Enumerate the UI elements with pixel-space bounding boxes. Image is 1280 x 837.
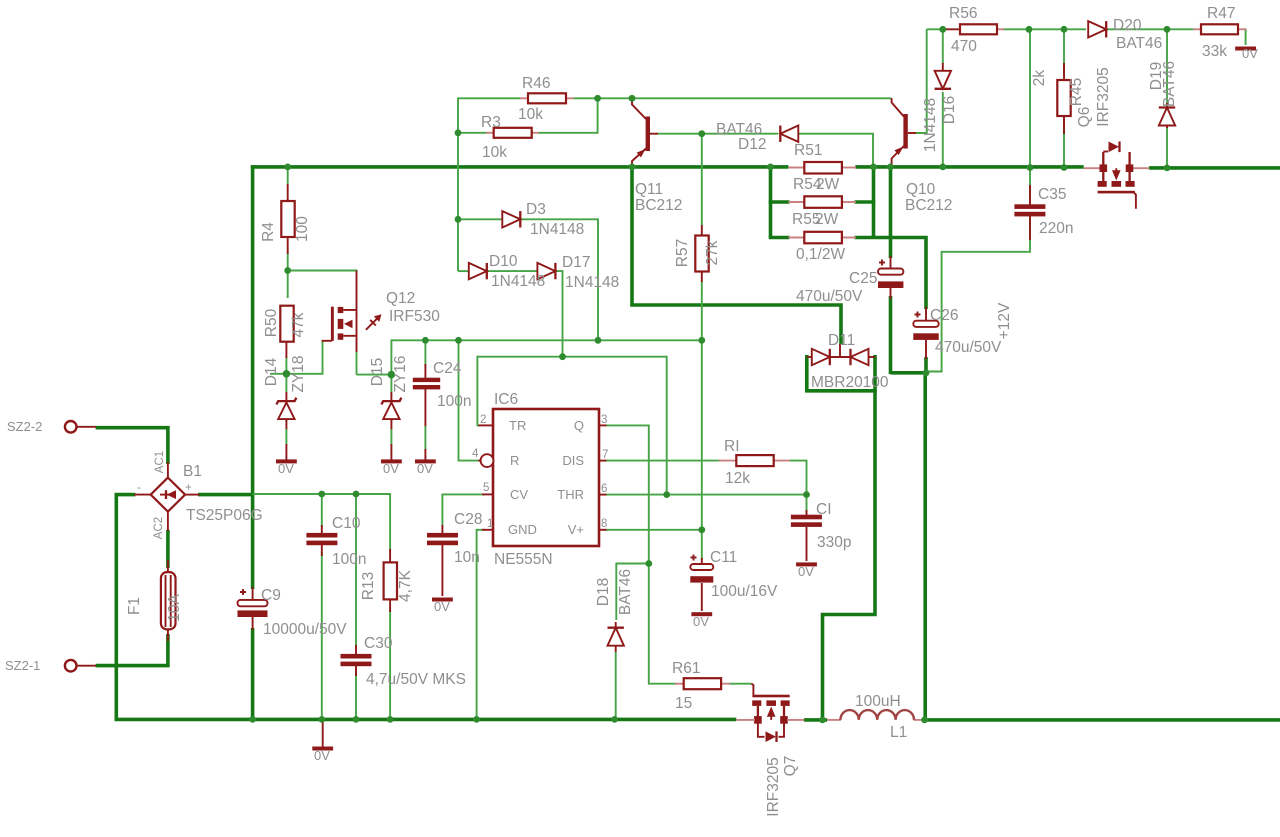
svg-text:ZY18: ZY18 (290, 355, 307, 392)
svg-text:0V: 0V (417, 461, 433, 476)
svg-text:Q6: Q6 (1076, 107, 1093, 128)
node D17 TR (559, 353, 566, 360)
wire C30 bottom (355, 672, 357, 719)
bridge rectifier B1 (134, 462, 200, 531)
node R1 C1 THR (803, 491, 810, 498)
wire D10 D17 link (487, 270, 538, 272)
wire B1 plus rail thin (253, 493, 391, 495)
label 0V C24 (417, 461, 433, 476)
label D20 (1113, 17, 1162, 52)
svg-text:10000u/50V: 10000u/50V (263, 621, 347, 638)
resistor R46 (520, 93, 574, 103)
label C28 (454, 511, 482, 566)
svg-text:R3: R3 (481, 114, 501, 131)
label D18 (595, 569, 634, 615)
wire THR line (605, 494, 806, 496)
svg-text:D20: D20 (1113, 17, 1142, 34)
wire output riser to L1 (923, 373, 927, 720)
node R3 left (455, 129, 462, 136)
svg-text:27k: 27k (704, 240, 721, 265)
wire bottom bus far right (923, 718, 1280, 722)
svg-text:V+: V+ (568, 522, 584, 537)
svg-text:2W: 2W (815, 211, 839, 228)
wire TR down to THR (666, 356, 668, 495)
electrolytic C11 (690, 555, 713, 612)
label R1 (724, 438, 750, 487)
node rail Q11 collector (629, 95, 636, 102)
wire R45 top (1063, 29, 1065, 76)
svg-text:F1: F1 (126, 597, 143, 615)
wire R13 bottom (389, 610, 391, 719)
wire shunt stack left stub row2 (769, 200, 790, 204)
wire R46 R3 left vertical (457, 97, 459, 271)
svg-text:BAT46: BAT46 (1116, 35, 1162, 52)
svg-text:R51: R51 (794, 142, 822, 159)
wire Q11 base (657, 133, 703, 135)
node C9 bus (249, 716, 256, 723)
node C35 bus (1027, 164, 1034, 171)
terminal SZ2-2 (65, 421, 96, 433)
label Q12 (386, 290, 440, 325)
wire pin4 riser (459, 340, 481, 460)
wire Q10 base to corner (915, 29, 927, 133)
svg-text:D18: D18 (595, 578, 612, 606)
svg-text:0V: 0V (434, 599, 450, 614)
node Q11 emitter bus (629, 164, 636, 171)
svg-text:D11: D11 (828, 332, 855, 349)
wire B junction up to y340 (390, 339, 392, 374)
svg-text:CI: CI (816, 501, 832, 518)
label Q10 (905, 181, 952, 214)
label R57 (674, 239, 721, 267)
wire C25 bottom corner to C26 junction (891, 371, 927, 375)
label D16 (922, 96, 958, 152)
label SZ2-1 (5, 658, 40, 673)
svg-text:Q7: Q7 (782, 756, 799, 777)
wire bottom bus right of switch node (804, 718, 827, 722)
label D15 (369, 355, 409, 392)
resistor R51 (788, 162, 856, 174)
label 0V C28 (434, 599, 450, 614)
wire B junction down to D15 (390, 375, 392, 392)
svg-text:+: + (185, 482, 192, 494)
svg-text:B1: B1 (183, 463, 202, 480)
wire D10 row left (458, 270, 469, 272)
svg-text:D17: D17 (562, 254, 590, 271)
svg-text:0,1/2W: 0,1/2W (796, 246, 845, 263)
wire D18 top hanger (615, 563, 617, 620)
resistor R56 (943, 24, 1004, 34)
label C1 (816, 501, 851, 551)
diode D12 (780, 126, 798, 142)
wire D3 row left (458, 218, 503, 220)
node top rail D16 (939, 26, 946, 33)
wire D19 bottom to bus (1166, 127, 1168, 168)
svg-text:470: 470 (951, 38, 977, 55)
wire V+ pin line (605, 529, 702, 531)
svg-text:DIS: DIS (562, 453, 584, 468)
label SZ2-2 (7, 419, 42, 434)
label 0V R47 (1242, 46, 1258, 61)
wire R45 bottom (1063, 121, 1065, 168)
svg-text:0V: 0V (383, 461, 399, 476)
wire C35 bottom elbow to output node (927, 220, 1030, 372)
wire shunt stack right stub row2 (855, 200, 876, 204)
resistor R50 (280, 306, 293, 358)
wire DIS line (605, 460, 720, 462)
wire V+ vertical lower (701, 281, 703, 530)
svg-text:MBR20100: MBR20100 (811, 374, 889, 391)
wire TR line (477, 356, 666, 358)
wire R4 junction to Q12 drain (288, 270, 358, 272)
svg-text:C25: C25 (849, 270, 877, 287)
svg-text:15: 15 (675, 695, 692, 712)
ground D14 (276, 459, 297, 463)
wire C25 riser from bus (889, 165, 893, 258)
svg-text:ZY16: ZY16 (392, 355, 409, 392)
svg-text:AC2: AC2 (153, 517, 165, 539)
label IC6 (494, 391, 553, 568)
label C9 (261, 587, 347, 638)
label R50 (263, 308, 307, 337)
label B1 (137, 451, 263, 539)
svg-text:10k: 10k (518, 106, 543, 123)
node C24 top (422, 337, 429, 344)
svg-text:2W: 2W (816, 176, 840, 193)
diode D20 (1088, 21, 1106, 37)
resistor R4 (281, 184, 294, 254)
node D3 vplus (595, 337, 602, 344)
wire A junction down to D14 (285, 374, 287, 392)
svg-text:C26: C26 (930, 307, 958, 324)
resistor R54 (788, 196, 856, 208)
label R45 (1031, 70, 1085, 107)
diode D10 (469, 263, 487, 279)
node stack left (767, 164, 774, 171)
svg-text:10n: 10n (454, 549, 480, 566)
label C35 (1038, 186, 1073, 237)
ground C28 (432, 598, 453, 602)
svg-text:0V: 0V (693, 614, 709, 629)
wire top rail to D16 junction (927, 28, 944, 30)
resistor R1 (719, 455, 790, 466)
svg-text:100uH: 100uH (855, 693, 901, 710)
svg-text:CV: CV (510, 487, 528, 502)
wire pin3 Q net (605, 425, 676, 683)
ground R47 (1235, 47, 1256, 51)
node D18 Q (645, 560, 652, 567)
resistor R47 (1193, 24, 1246, 34)
wire C25 bottom vertical (889, 296, 893, 374)
svg-text:47k: 47k (290, 312, 307, 337)
IC6 pin 4 stub bubble (478, 454, 493, 467)
ground C11 (691, 612, 712, 616)
label D3 (526, 201, 584, 238)
resistor R55 (788, 232, 856, 244)
svg-text:BAT46: BAT46 (617, 569, 634, 615)
label pin names (508, 418, 584, 537)
node R4 top (284, 164, 291, 171)
svg-text:1N4148: 1N4148 (530, 221, 584, 238)
svg-text:4,7K: 4,7K (397, 569, 414, 602)
wire shunt stack left vertical (769, 167, 773, 238)
node pin4 riser top (455, 337, 462, 344)
terminal SZ2-1 (65, 660, 96, 672)
svg-text:7: 7 (602, 449, 608, 461)
label R61 (672, 660, 700, 712)
wire shunt stack left stub row3 (769, 236, 790, 240)
node R45 bus (1061, 164, 1068, 171)
wire C9 bottom to bottom bus (251, 628, 255, 719)
electrolytic C26 (913, 307, 938, 359)
svg-text:100n: 100n (332, 551, 366, 568)
svg-text:R45: R45 (1068, 78, 1085, 106)
wire C1 hanger (806, 495, 808, 512)
node D3 left (455, 216, 462, 223)
wire C10 hanger (321, 494, 323, 527)
wire R4 bottom junction (287, 253, 289, 299)
zener D14 (276, 392, 296, 460)
svg-text:+12V: +12V (996, 302, 1013, 339)
ground bottom bus (312, 722, 333, 751)
label D14 (263, 355, 307, 392)
label R55 2W (792, 211, 839, 228)
resistor R13 (384, 549, 397, 612)
wire gate path Q12 (270, 341, 323, 374)
label R4 (260, 216, 311, 242)
svg-text:D3: D3 (526, 201, 546, 218)
IC6 pin 7 stub (599, 460, 607, 462)
svg-text:R13: R13 (360, 572, 377, 600)
node A gate (283, 370, 291, 378)
svg-text:1: 1 (487, 518, 493, 530)
svg-text:0V: 0V (798, 564, 814, 579)
label C11 (710, 549, 778, 600)
svg-text:Q12: Q12 (386, 290, 415, 307)
svg-text:TS25P06G: TS25P06G (186, 507, 263, 524)
label Q7 (765, 756, 799, 817)
svg-text:4: 4 (472, 448, 479, 460)
wire C10 bottom (321, 552, 323, 719)
svg-text:10A: 10A (166, 594, 183, 622)
svg-text:R56: R56 (949, 5, 977, 22)
wire left riser from bus to C9 (251, 165, 255, 589)
label C30 (364, 635, 466, 688)
svg-text:5: 5 (483, 482, 489, 494)
node IC GND bus (473, 716, 480, 723)
label pin numbers (472, 414, 608, 530)
svg-text:12k: 12k (725, 470, 750, 487)
wire IC GND down to bus (477, 530, 485, 720)
wire CV line to C28 (442, 494, 484, 527)
svg-text:R57: R57 (674, 239, 691, 267)
wire B1 minus to bottom bus (116, 495, 135, 720)
wire C26 bottom to junction (924, 357, 928, 373)
label 0V D14 (278, 461, 294, 476)
svg-text:R: R (510, 453, 519, 468)
svg-text:R47: R47 (1207, 5, 1235, 22)
svg-text:0V: 0V (278, 461, 294, 476)
svg-text:6: 6 (601, 483, 607, 495)
resistor R3 (486, 128, 539, 138)
capacitor C28 (427, 525, 458, 596)
wire fuse top to B1 (166, 530, 170, 568)
svg-text:100: 100 (294, 216, 311, 242)
label R56 (949, 5, 977, 55)
wire rail y98 left (458, 97, 521, 99)
wire V+ net y340 (391, 339, 701, 341)
electrolytic C25 (878, 256, 903, 299)
svg-text:L1: L1 (890, 724, 907, 741)
wire TR to pin2 (477, 356, 480, 426)
inductor L1 (827, 710, 924, 720)
svg-text:1N4148: 1N4148 (491, 273, 545, 290)
svg-text:TR: TR (509, 418, 526, 433)
node switch bus (819, 717, 826, 724)
wire V+ vertical R57 branch (701, 134, 703, 226)
label D10 (489, 253, 545, 290)
wire R56 right to junctions (1003, 28, 1086, 30)
wire C30 hanger (355, 494, 357, 648)
label 0V bus (314, 748, 330, 763)
mosfet Q6 (1084, 142, 1150, 209)
svg-text:10k: 10k (482, 144, 507, 161)
svg-text:AC1: AC1 (154, 451, 166, 473)
svg-text:BC212: BC212 (905, 197, 952, 214)
node D16 bus (939, 164, 946, 171)
wire R13 hanger (389, 493, 391, 551)
label R3 (481, 114, 507, 161)
svg-text:C11: C11 (710, 549, 737, 566)
wire Q12 source down (356, 351, 358, 375)
capacitor C24 (413, 364, 440, 460)
label 0V C11 (693, 614, 709, 629)
wire shunt stack right vertical (872, 167, 876, 238)
wire C11 hanger (701, 530, 703, 560)
wire D3 cathode to V+ line (520, 219, 598, 340)
wire D16 hanger (942, 29, 944, 64)
wire rail y98 mid (573, 97, 892, 99)
svg-text:THR: THR (557, 487, 584, 502)
svg-text:C10: C10 (332, 515, 361, 532)
label R13 (360, 569, 414, 602)
svg-text:NE555N: NE555N (494, 551, 553, 568)
svg-text:4,7u/50V MKS: 4,7u/50V MKS (366, 671, 466, 688)
wire D11 anode loop (807, 355, 875, 391)
node R4 R50 (284, 267, 291, 274)
zener D15 (381, 392, 401, 460)
label 0V C1 (798, 564, 814, 579)
wire R3 right to rail (538, 98, 598, 133)
electrolytic C9 (238, 587, 268, 630)
node C10 top (318, 491, 325, 498)
wire D16 bottom to bus (942, 92, 944, 167)
svg-text:330p: 330p (817, 534, 851, 551)
wire R50 bottom to A (285, 357, 287, 375)
wire C35 riser top (1029, 29, 1031, 168)
label D12 (716, 121, 766, 153)
label D11 (811, 332, 889, 391)
svg-text:R4: R4 (260, 222, 277, 242)
wire R1 right corner down (790, 461, 807, 495)
wire B1 top to SZ2-2 (96, 428, 168, 464)
label C26 (930, 307, 1002, 356)
label R55 value (796, 246, 845, 263)
node C10 bus (318, 716, 325, 723)
diode D16 (935, 63, 951, 90)
svg-text:8: 8 (601, 518, 607, 530)
node V+ pin (698, 526, 705, 533)
svg-text:220n: 220n (1039, 220, 1073, 237)
svg-text:R61: R61 (672, 660, 700, 677)
label D19 (1148, 61, 1178, 107)
wire D18 link to Q net (616, 563, 649, 565)
wire R61 to Q7 gate (729, 683, 751, 685)
node R57 vplus (698, 337, 705, 344)
resistor R61 (675, 678, 730, 689)
ground C24 (415, 459, 436, 463)
svg-text:0V: 0V (314, 748, 330, 763)
node top rail D19 (1164, 26, 1171, 33)
capacitor C10 (306, 525, 337, 556)
svg-text:C9: C9 (261, 587, 281, 604)
IC6 pin 3 stub (599, 424, 607, 426)
svg-text:IRF3205: IRF3205 (1095, 67, 1112, 126)
svg-text:470u/50V: 470u/50V (796, 288, 863, 305)
wire D12 anode link (702, 133, 778, 135)
wire R4 top (287, 167, 289, 185)
capacitor C30 (341, 645, 372, 676)
svg-text:D12: D12 (738, 136, 766, 153)
svg-text:Q10: Q10 (906, 181, 936, 198)
diode D18 (608, 622, 624, 652)
label R47 (1202, 5, 1235, 60)
diode D19 (1159, 103, 1175, 128)
wire row3 to C26 riser (855, 238, 927, 310)
wire bottom bus (115, 718, 737, 722)
svg-text:0V: 0V (1242, 46, 1258, 61)
svg-text:IC6: IC6 (494, 391, 518, 408)
svg-text:C35: C35 (1038, 186, 1066, 203)
IC6 pin 1 stub (482, 529, 493, 531)
svg-text:C30: C30 (364, 635, 393, 652)
svg-text:BAT46: BAT46 (1161, 61, 1178, 107)
label C25 (796, 270, 877, 305)
label C24 (433, 360, 471, 410)
svg-text:GND: GND (508, 522, 537, 537)
svg-text:3: 3 (601, 414, 607, 426)
diode D3 (502, 211, 520, 227)
mosfet Q12 IRF530 (322, 271, 382, 353)
node C25 C26 out (923, 369, 930, 376)
wire SZ2-1 to fuse (96, 634, 168, 666)
svg-text:1N4148: 1N4148 (565, 274, 619, 291)
svg-text:100n: 100n (437, 393, 471, 410)
diode D17 (537, 263, 555, 279)
wire D17 cathode down to TR line (555, 271, 562, 357)
svg-text:1N4148: 1N4148 (922, 98, 939, 152)
node Q11 base (698, 130, 705, 137)
wire R47 right to gnd (1244, 29, 1246, 45)
node top rail C35 (1026, 26, 1033, 33)
label Q6 (1076, 67, 1112, 127)
wire D12 cathode to bus corner (798, 134, 874, 166)
wire D20 to R47 (1107, 28, 1195, 30)
svg-text:C24: C24 (433, 360, 462, 377)
svg-text:SZ2-2: SZ2-2 (7, 419, 42, 434)
svg-text:D15: D15 (369, 358, 386, 386)
node R13 bus (387, 716, 394, 723)
